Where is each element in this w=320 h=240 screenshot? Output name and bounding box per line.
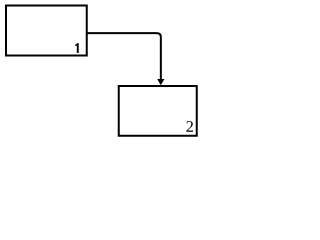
label 2 [186, 121, 193, 132]
wire [88, 33, 161, 80]
arrowhead [157, 79, 164, 85]
box 1 [6, 6, 87, 56]
box 2 [119, 86, 197, 136]
label 1 [75, 43, 79, 53]
